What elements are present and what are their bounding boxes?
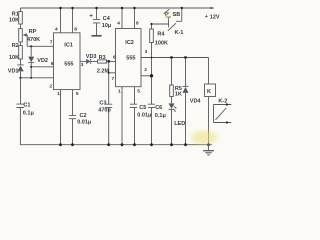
ground bbox=[208, 145, 210, 151]
node junction pin7 IC2 bbox=[108, 72, 110, 74]
resistor R4 bbox=[150, 29, 154, 43]
svg-text:1: 1 bbox=[118, 89, 121, 95]
node junction SB bus bbox=[181, 7, 183, 9]
node junction pin2 left bbox=[19, 77, 21, 79]
wire LED to bus bbox=[171, 110, 173, 145]
wire RP wiper bbox=[23, 33, 27, 36]
svg-text:555: 555 bbox=[126, 56, 135, 62]
resistor RP bbox=[19, 29, 23, 43]
resistor R1 bbox=[19, 12, 23, 25]
svg-text:4: 4 bbox=[117, 21, 120, 27]
watermark smudge bbox=[191, 131, 217, 145]
capacitor C3 bbox=[105, 104, 112, 107]
node bottom bus junctions bbox=[59, 143, 62, 146]
svg-text:4: 4 bbox=[55, 27, 58, 33]
wire R4 top bbox=[152, 24, 169, 29]
wire pin2 IC2 bbox=[141, 75, 152, 77]
wire pin3 to relay K bbox=[208, 58, 210, 85]
svg-text:3: 3 bbox=[81, 62, 84, 68]
node K-2 terminal bottom bbox=[226, 121, 228, 123]
node junction R4 pin3 bbox=[151, 57, 153, 59]
node junction R3 out bbox=[107, 60, 110, 63]
svg-text:LED: LED bbox=[174, 121, 185, 127]
svg-text:C6: C6 bbox=[155, 105, 162, 111]
node junction pin6 bbox=[30, 66, 32, 68]
svg-text:IC1: IC1 bbox=[64, 42, 73, 48]
wire pin3 IC2 output bbox=[141, 57, 209, 59]
node K-2 terminal top bbox=[226, 103, 228, 105]
wire pin4 IC2 bbox=[121, 8, 123, 29]
node junction R4 top bbox=[150, 23, 152, 25]
svg-text:C3: C3 bbox=[99, 100, 106, 106]
diode VD1 bbox=[17, 64, 23, 66]
wire pin5 IC2 bbox=[134, 87, 136, 104]
wire pin3 IC1 bbox=[80, 60, 86, 62]
svg-text:SB: SB bbox=[173, 12, 181, 18]
wire pin5 IC1 bbox=[72, 90, 74, 116]
svg-text:2: 2 bbox=[49, 84, 52, 90]
svg-text:0.1μ: 0.1μ bbox=[155, 113, 166, 119]
wire SB to K-1 bbox=[168, 17, 170, 27]
svg-text:C1: C1 bbox=[23, 103, 30, 109]
svg-text:VD4: VD4 bbox=[190, 98, 202, 104]
svg-text:470p: 470p bbox=[98, 108, 111, 114]
svg-text:VD3: VD3 bbox=[86, 54, 97, 60]
svg-text:R3: R3 bbox=[99, 55, 106, 61]
svg-text:C4: C4 bbox=[103, 16, 111, 22]
svg-text:2.2M: 2.2M bbox=[97, 69, 110, 75]
svg-text:7: 7 bbox=[50, 40, 53, 46]
node junction ground bbox=[207, 143, 210, 146]
LED VD5 bbox=[169, 103, 175, 108]
svg-text:12V: 12V bbox=[210, 15, 220, 21]
svg-text:5: 5 bbox=[76, 91, 79, 97]
node junction pin2 IC2 bbox=[150, 74, 153, 77]
wire pin8 IC1 bbox=[72, 8, 74, 33]
node junction pin7 bbox=[30, 45, 32, 47]
svg-text:C2: C2 bbox=[80, 113, 87, 119]
op-amp U2 body: timer IC2 555 bbox=[116, 29, 142, 87]
wire pin6 IC1 bbox=[31, 66, 53, 68]
svg-text:2: 2 bbox=[144, 67, 147, 73]
switch SB bbox=[164, 9, 170, 14]
relay coil K bbox=[205, 84, 216, 97]
wire R4 bottom chain bbox=[151, 43, 153, 105]
resistor R3 bbox=[98, 60, 107, 63]
svg-text:6: 6 bbox=[51, 61, 54, 67]
capacitor C5 bbox=[130, 104, 137, 107]
svg-text:K-2: K-2 bbox=[218, 99, 227, 105]
svg-text:K-1: K-1 bbox=[175, 30, 184, 36]
diode VD2 bbox=[30, 46, 32, 78]
wire pin7 IC1 bbox=[27, 45, 53, 47]
capacitor C4 bbox=[96, 8, 98, 19]
svg-text:K: K bbox=[207, 89, 211, 95]
svg-text:100K: 100K bbox=[155, 40, 168, 46]
svg-text:0.01μ: 0.01μ bbox=[77, 120, 91, 126]
diode VD4 bbox=[185, 58, 187, 87]
svg-text:C5: C5 bbox=[139, 105, 146, 111]
capacitor C6 bbox=[148, 104, 155, 107]
wire R5 top bbox=[171, 58, 173, 86]
wire C6 to bus bbox=[151, 108, 153, 145]
svg-text:555: 555 bbox=[64, 62, 73, 68]
wire left rail segments bbox=[19, 8, 21, 145]
svg-text:5: 5 bbox=[137, 89, 140, 95]
svg-text:470K: 470K bbox=[27, 37, 40, 43]
node junction R5 top bbox=[170, 56, 173, 59]
svg-text:8: 8 bbox=[136, 21, 139, 27]
ground C4 bbox=[91, 35, 101, 37]
wire pin8 IC2 bbox=[134, 8, 136, 29]
svg-text:R4: R4 bbox=[157, 31, 165, 37]
svg-text:8: 8 bbox=[74, 27, 77, 33]
svg-text:3: 3 bbox=[145, 49, 148, 55]
wire C2 to bus bbox=[72, 119, 74, 145]
svg-text:R2: R2 bbox=[12, 43, 19, 49]
svg-text:6: 6 bbox=[113, 54, 116, 60]
wire C3 to bus bbox=[108, 108, 110, 145]
svg-text:IC2: IC2 bbox=[125, 40, 134, 46]
wire node to pin7 IC2 bbox=[108, 61, 110, 104]
svg-text:1: 1 bbox=[57, 91, 60, 97]
capacitor C2 bbox=[69, 115, 76, 118]
svg-text:10μ: 10μ bbox=[102, 23, 111, 29]
resistor R2 bbox=[19, 46, 23, 60]
wire pin7 IC2 bbox=[109, 72, 116, 74]
svg-text:1K: 1K bbox=[175, 91, 182, 97]
diode VD3 bbox=[86, 59, 90, 64]
svg-text:10K: 10K bbox=[9, 18, 19, 24]
op-amp U1 body: timer IC1 555 bbox=[54, 33, 81, 90]
node +12V terminal arrow bbox=[211, 7, 215, 10]
wire pin4 IC1 bbox=[60, 8, 62, 33]
wire C5 to bus bbox=[134, 108, 136, 145]
wire K to ground bus bbox=[208, 97, 210, 145]
node junction pin2 bbox=[30, 77, 32, 79]
wire pin1 IC2 bbox=[121, 87, 123, 145]
wire pin2 IC1 bbox=[21, 77, 54, 79]
wire bottom ground bus bbox=[20, 144, 212, 146]
node junction VD4 top bbox=[184, 56, 187, 59]
node C4 plus sign bbox=[89, 14, 92, 17]
wire R5 to LED bbox=[171, 97, 173, 104]
svg-text:VD2: VD2 bbox=[37, 58, 48, 64]
svg-text:+: + bbox=[205, 14, 208, 20]
svg-text:VD1: VD1 bbox=[8, 68, 19, 74]
svg-text:10K: 10K bbox=[9, 55, 19, 61]
svg-text:0.01μ: 0.01μ bbox=[137, 112, 151, 118]
wire pin1 IC1 bbox=[60, 90, 62, 145]
node top bus junctions bbox=[59, 7, 62, 10]
wire top +12V bus bbox=[21, 7, 214, 9]
switch K-1 relay contact bbox=[168, 8, 182, 31]
capacitor C1 bbox=[17, 104, 25, 107]
svg-text:R1: R1 bbox=[12, 11, 19, 17]
svg-text:RP: RP bbox=[29, 29, 37, 35]
resistor R5 bbox=[170, 85, 174, 97]
wire R3 to IC2 pin6 bbox=[107, 60, 116, 62]
svg-text:0.1μ: 0.1μ bbox=[23, 111, 34, 117]
switch K-2 relay contact bbox=[214, 105, 232, 123]
svg-text:7: 7 bbox=[112, 76, 115, 82]
